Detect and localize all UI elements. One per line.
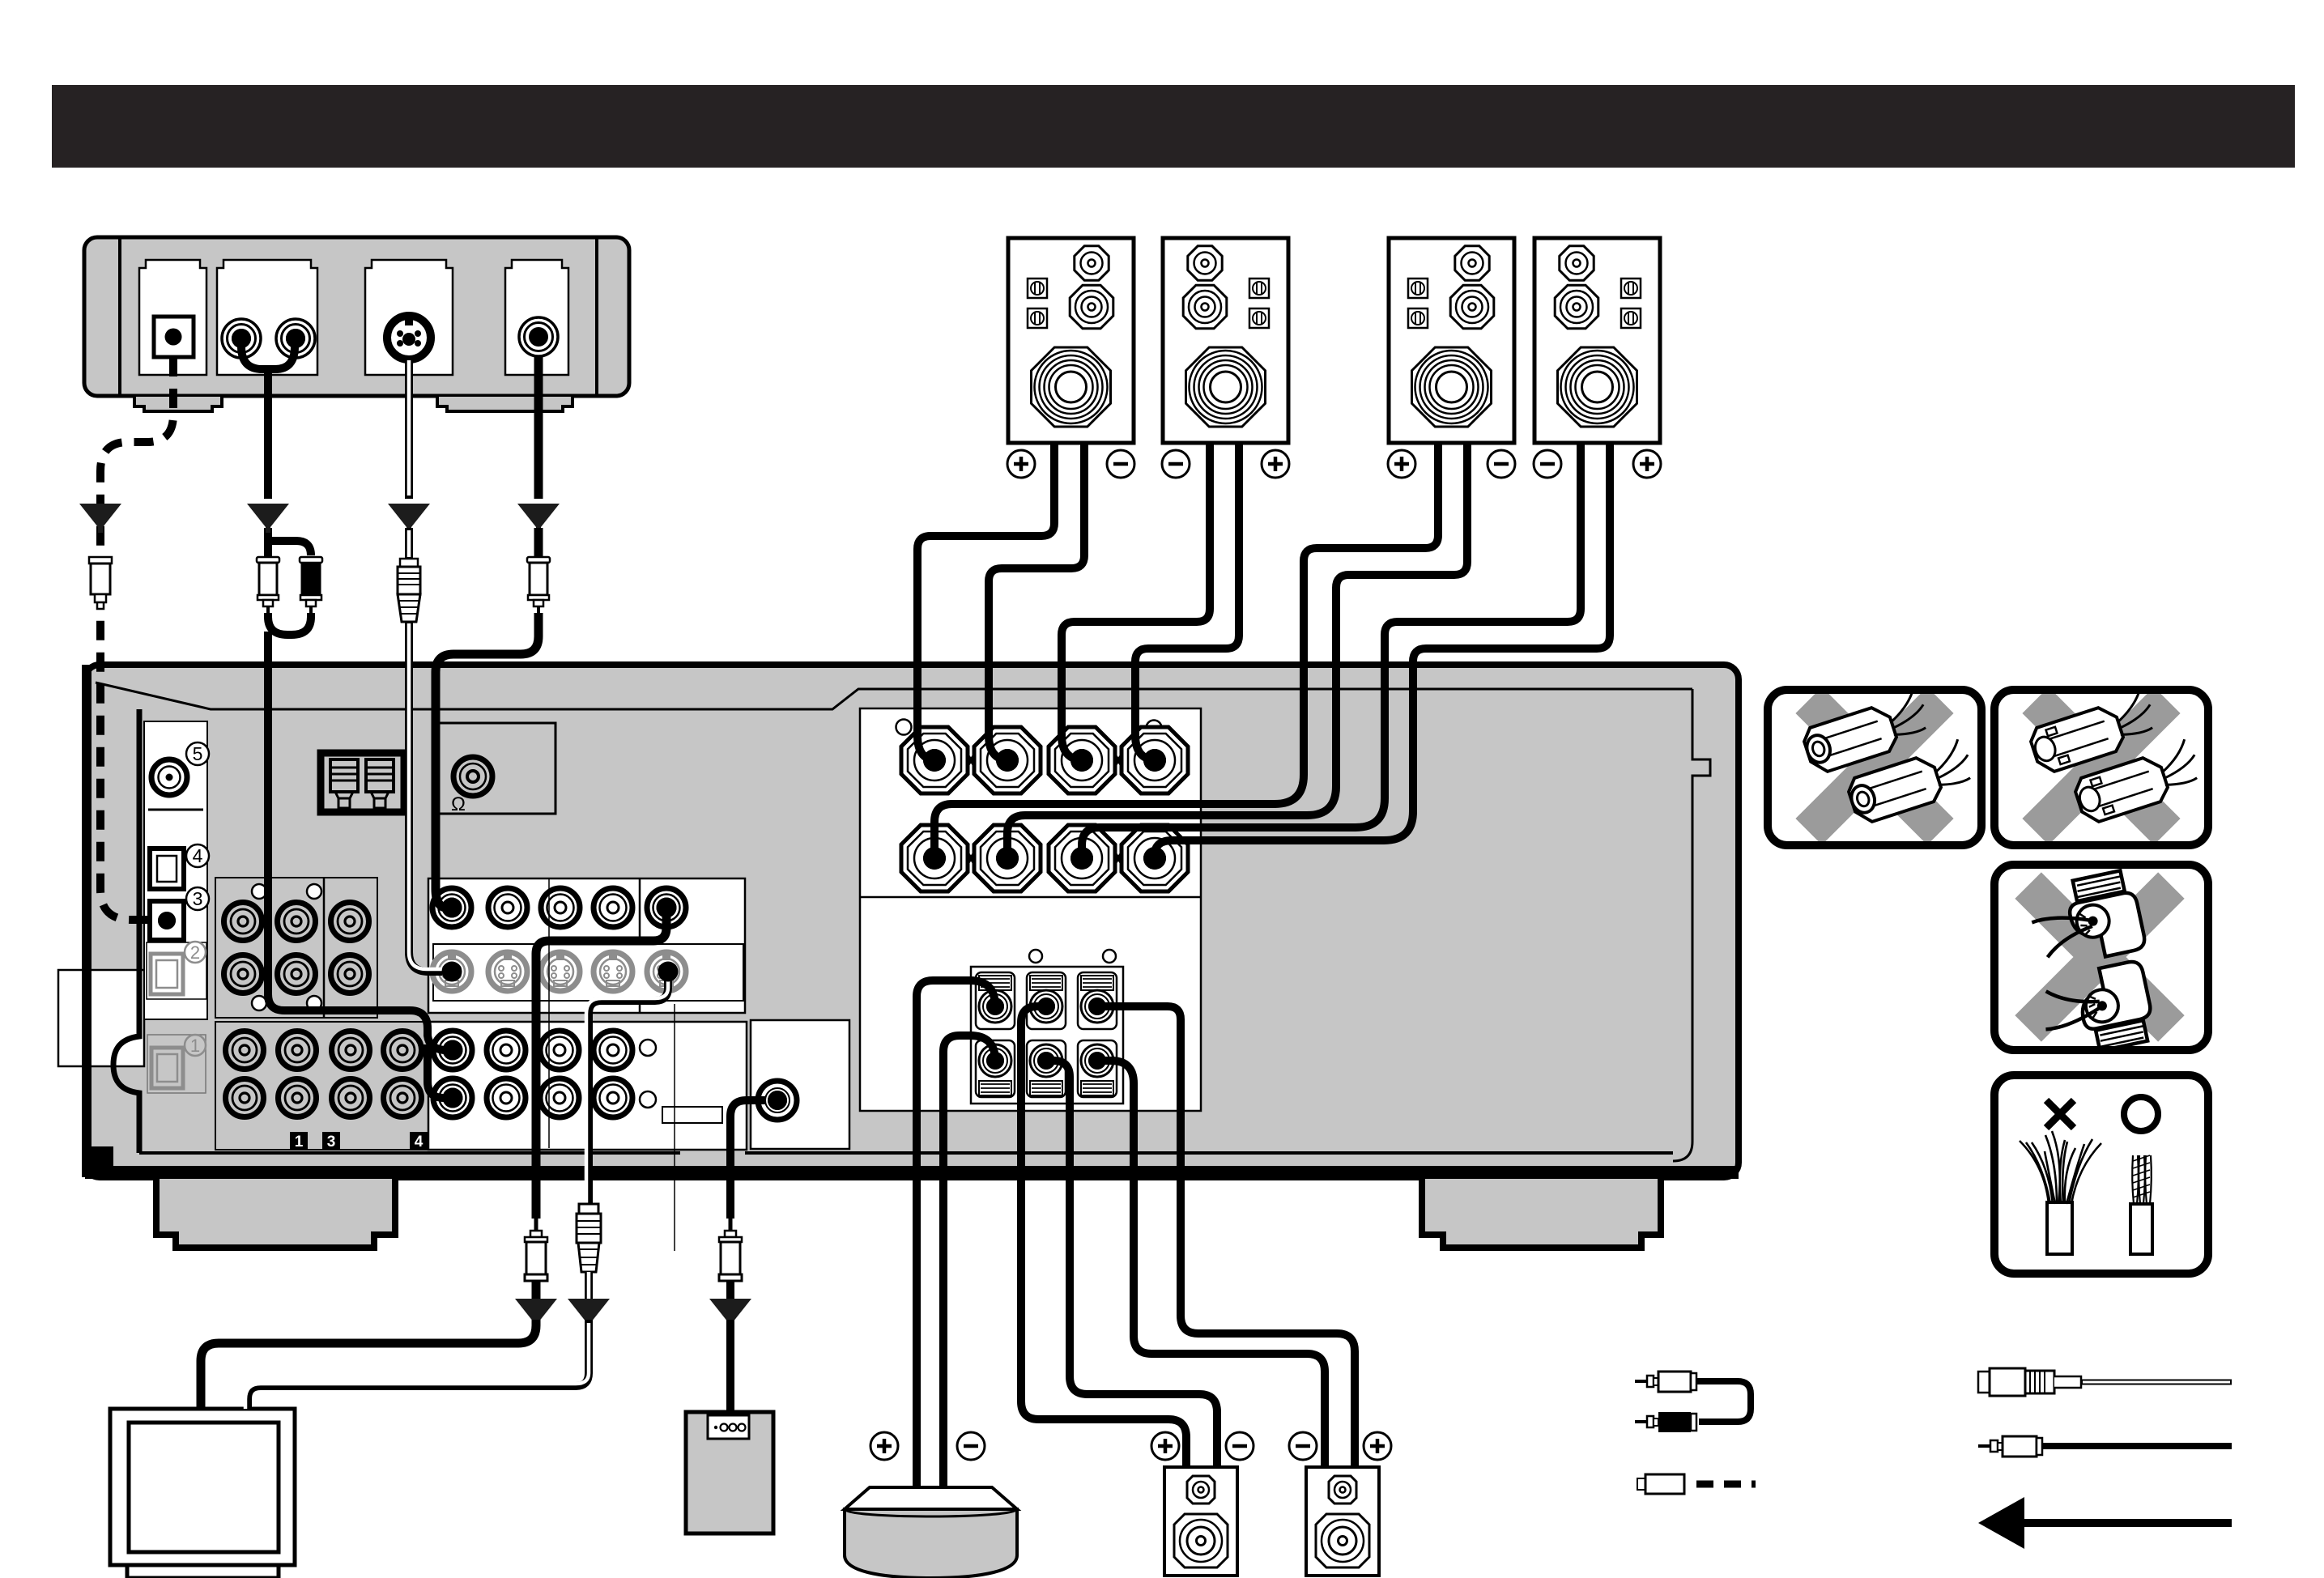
component jacks row 2 [224,955,262,993]
DVD video jack [519,317,558,356]
surround A + cable [1021,1006,1186,1467]
svg-text:5: 5 [193,743,203,764]
receiver left foot [156,1179,395,1248]
optical jack 4 [150,849,184,889]
legend: optical cable dashed [1637,1474,1756,1494]
video monitor out cable to TV [536,908,666,1219]
center - cable [943,1036,995,1487]
DVD panel cutout 1 [139,260,206,375]
audio loop at DVD jacks [241,340,295,369]
receiver right foot [1422,1179,1661,1248]
number labels 1 3 4 [290,1132,308,1150]
coaxial jack 5 [151,759,187,795]
warning box 4: wire stripping right and wrong [1994,1075,2208,1274]
warning box 1: crossed banana plugs [1743,634,2006,897]
TV monitor [110,1409,295,1578]
svg-text:4: 4 [193,845,203,866]
white label rect [662,1107,722,1123]
SP2 - cable [1062,443,1210,760]
svg-text:2: 2 [190,942,200,963]
receiver inner left line with bump [113,709,139,1153]
title bar [52,85,2295,168]
center + cable [917,980,995,1487]
jack 1 gray box [147,1035,206,1093]
warning box 2: crossed spade connectors [1969,634,2232,897]
svg-text:1: 1 [190,1036,200,1056]
left white strip [144,721,207,1019]
component video grid box [215,878,377,1018]
label 3 [186,887,209,910]
bowtie webs row1 [957,739,985,781]
binding posts row 1 [901,727,968,793]
speaker box [1163,238,1288,443]
receiver inner right line [1673,689,1710,1161]
svg-text:Ω: Ω [451,793,466,815]
audio white panel [428,1022,747,1150]
thin leader line [674,1004,675,1251]
receiver bottom left corner step [92,1146,113,1168]
jack 2 white box [147,942,206,999]
legend: video pin cable [1978,1436,2232,1457]
audio cable down [264,369,272,499]
DVD player body [84,237,629,396]
DVD optical out jack [154,317,194,357]
surround terminal block [971,967,1123,1104]
DVD panel cutout 4 [505,260,568,375]
receiver body [85,665,1739,1177]
label 5 [186,742,209,765]
s-video row box [433,944,743,1001]
video white panel [428,878,745,1013]
DVD s-video jack [387,316,431,359]
svg-text:3: 3 [193,888,203,909]
component jacks row 1 [224,903,262,941]
video cable down [534,356,543,499]
legend: audio L/R cable [1635,1372,1751,1432]
subwoofer cable [730,1100,766,1219]
subwoofer out panel [751,1020,849,1149]
binding posts row 2 [901,825,968,891]
speaker box [1008,238,1134,443]
svg-text:4: 4 [415,1134,424,1151]
DVD panel cutout 2 [217,260,317,375]
speaker box [1389,238,1514,443]
surround B + cable [1097,1006,1355,1467]
antenna terminal block [321,753,404,812]
receiver left cutout notch [58,970,144,1066]
surround B - cable [1097,1061,1325,1467]
SP1 - cable [989,443,1084,760]
speaker box [1534,238,1660,443]
surround speaker A [1164,1467,1237,1576]
SP2 + cable [1135,443,1239,760]
SP3 + cable [934,443,1438,858]
svg-text:1: 1 [295,1134,304,1151]
lower-left audio gray grid [215,1022,428,1150]
legend: signal direction arrow [1978,1497,2232,1549]
SP3 - cable [1007,443,1467,858]
DVD panel cutout 3 [365,260,453,375]
surround A - cable [1046,1061,1217,1467]
powered subwoofer box [686,1412,773,1533]
monitor out video jacks row [432,888,471,927]
s-video monitor out cable to TV [589,972,668,1204]
s-video cable down [405,359,413,499]
SP4 + cable [1155,443,1610,858]
receiver inner bottom line [139,1151,1673,1155]
label 4 [186,844,209,867]
svg-text:3: 3 [327,1134,336,1151]
optical jack 3 plugged [150,901,184,940]
legend: s-video cable [1978,1368,2232,1396]
tuner box with ohm jack [438,723,555,814]
optical jack 2 gray [151,954,183,994]
warning box 3: crossed spring clips [1956,814,2243,1100]
center speaker [845,1487,1017,1578]
DVD audio L jack [222,319,261,358]
dashed optical cable [100,357,173,920]
surround speaker B [1306,1467,1379,1576]
SP4 - cable [1082,443,1581,858]
speaker terminal white panel [860,708,1201,1111]
optical jack 1 gray [151,1048,183,1088]
DVD right foot [437,397,572,411]
receiver top bevel line [96,683,1692,709]
DVD audio R jack [276,319,315,358]
DVD left foot [134,397,222,411]
SP1 + cable [917,443,1054,760]
